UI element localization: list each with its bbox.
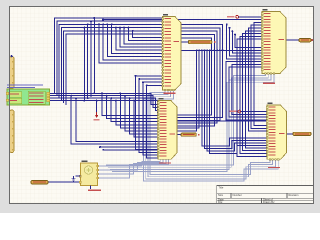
wire drop 3 to C bottom bbox=[143, 82, 158, 155]
wire gray C-X1 1 bbox=[98, 159, 161, 166]
value label below X1 (red) bbox=[88, 190, 101, 191]
wire gray B bottom loop 3 bbox=[110, 74, 271, 170]
module U1 (green interface block) bbox=[7, 89, 50, 105]
oscillator X1 bbox=[81, 163, 98, 186]
wire VCC to P4 bbox=[241, 111, 267, 113]
harness port bottom-left bbox=[48, 181, 81, 183]
designator X1 (above) bbox=[82, 161, 88, 162]
wire drop to C right 5 bbox=[177, 50, 197, 131]
wire riser 4 bbox=[83, 28, 85, 101]
wire fan to A pin 1 bbox=[99, 24, 163, 63]
wire P2 low pin to P4 2 bbox=[232, 64, 267, 114]
wire P2 pin to P4 pin 7 bbox=[237, 39, 267, 156]
wire A low row 1 bbox=[136, 75, 163, 77]
wire A right to C right 4 bbox=[177, 35, 214, 126]
wire riser 1 bbox=[93, 18, 95, 93]
wire drop to P2 pin 1 bbox=[227, 25, 262, 59]
title block bbox=[217, 186, 314, 204]
wire bus TL corner 6 bbox=[66, 34, 163, 105]
wire A right to C right 1 bbox=[177, 25, 223, 118]
power port VCC top (red) bbox=[236, 15, 239, 18]
wire fan to A pin 8 bbox=[128, 28, 162, 41]
svg-text:Title: Title bbox=[219, 186, 224, 190]
wire A low row 2 bbox=[139, 78, 162, 80]
wire gray C-X1 4 bbox=[98, 159, 169, 178]
wire gray B bottom loop 1 bbox=[106, 74, 265, 166]
wire staircase drop 2 to C bbox=[107, 96, 158, 119]
wire A right to C right 5 bbox=[177, 38, 212, 115]
wire to port D bbox=[287, 133, 294, 135]
harness port B bbox=[299, 39, 311, 42]
wire P2 pin to P4 pin 5 bbox=[243, 34, 267, 151]
wire staircase drop 7 to C bbox=[130, 98, 158, 134]
svg-text:Size: Size bbox=[218, 193, 224, 197]
wire Z-knot to P4 3 bbox=[207, 50, 267, 151]
wire to GND bbox=[96, 101, 98, 112]
ground at X1 bbox=[72, 176, 76, 181]
wire gray A-D loop 4 bbox=[144, 90, 279, 181]
wire P2 pin to P4 pin 1 bbox=[254, 22, 267, 125]
node strip top bbox=[11, 55, 13, 57]
wire fan to A pin 5 bbox=[116, 28, 163, 51]
wire A right to C right 2 bbox=[177, 28, 220, 121]
wire A right long to P2 bbox=[181, 49, 262, 51]
wire gray A-D loop 1 bbox=[150, 90, 270, 175]
wire P2 low pin to P4 3 bbox=[229, 67, 267, 117]
wire to port B bbox=[286, 39, 299, 41]
wire gray A-D loop 2 bbox=[148, 90, 273, 177]
wire jog into P2 bbox=[255, 19, 263, 21]
power port VCC bottom (red) bbox=[238, 110, 241, 113]
svg-text:Number: Number bbox=[233, 193, 242, 197]
harness port D bbox=[293, 132, 311, 135]
wire staircase drop 5 to C bbox=[120, 93, 158, 128]
wire bus TL corner 1 bbox=[55, 18, 163, 93]
wire staircase drop 3 to C bbox=[111, 98, 158, 122]
power port GND (red) bbox=[96, 112, 98, 116]
wire A low row 4 bbox=[147, 84, 163, 86]
wire staircase drop 1 to C bbox=[102, 93, 158, 115]
wire Z-knot to P4 1 bbox=[202, 50, 267, 146]
sheet border frame bbox=[10, 7, 314, 204]
wire drop to P2 pin 4 bbox=[235, 35, 262, 48]
connector P3 bbox=[158, 101, 177, 160]
wire Z-knot to P4 4 bbox=[210, 50, 267, 153]
harness port A bbox=[188, 40, 212, 43]
wire drop 4 to C bottom bbox=[147, 85, 158, 157]
svg-text:Revision: Revision bbox=[289, 193, 300, 197]
wire green-box row 1 to C top bbox=[50, 93, 159, 104]
wire staircase drop 8 to C bbox=[134, 101, 158, 138]
wire long to P2 pin2 bbox=[103, 19, 255, 21]
wire row to C 4 bbox=[103, 149, 158, 151]
wire fan to A pin 9 bbox=[133, 31, 163, 38]
wire fan to A pin 6 bbox=[120, 28, 163, 47]
wire drop 2 to C bottom bbox=[139, 79, 158, 152]
wire A right to C right 3 bbox=[177, 31, 217, 123]
wire X1 left pin stub bbox=[76, 175, 81, 177]
wire bus TL corner 2 bbox=[57, 21, 163, 96]
wire gray A-D loop 3 bbox=[146, 90, 276, 179]
wire green-box row 2 to C top bbox=[50, 96, 159, 108]
wire to port C bbox=[177, 134, 181, 136]
wire U-left 1 to C bbox=[71, 96, 158, 145]
wire A low row 3 bbox=[143, 81, 163, 83]
connector P2 bbox=[262, 12, 286, 74]
wire fan to A pin 3 bbox=[107, 24, 162, 56]
wire P2 pin to P4 pin 4 bbox=[246, 31, 268, 148]
wire fan to A pin 7 bbox=[124, 28, 162, 44]
wire X1 bottom stub bbox=[90, 186, 92, 189]
harness port C bbox=[181, 133, 196, 136]
harness port E bbox=[31, 180, 48, 184]
wire fan to A pin 4 bbox=[112, 24, 163, 53]
wire bus TL corner 5 bbox=[64, 31, 163, 103]
wire gray C-X1 3 bbox=[98, 159, 166, 174]
wire P2 pin to P4 pin 6 bbox=[240, 36, 267, 153]
wire P2 low pin to P4 1 bbox=[226, 62, 267, 120]
wire VCC to P2 bbox=[239, 16, 262, 18]
wire green-box row 3 to C top bbox=[50, 98, 159, 110]
wire staircase drop 4 to C bbox=[116, 101, 158, 125]
connector P4 bbox=[267, 105, 287, 159]
wire drop 1 to C bottom bbox=[136, 76, 159, 150]
wire gray C-X1 2 bbox=[98, 159, 164, 170]
wire to port A bbox=[181, 41, 188, 43]
wire gray B bottom loop 2 bbox=[108, 74, 268, 168]
wire gray B bottom loop 4 bbox=[112, 74, 274, 172]
wire P2 pin to P4 pin 2 bbox=[251, 25, 267, 128]
wire drop to P2 pin 3 bbox=[232, 31, 262, 53]
wire drop to C right 6 bbox=[177, 50, 199, 128]
wire Z-knot to P4 2 bbox=[205, 50, 268, 148]
wire drop to P2 pin 2 bbox=[230, 28, 263, 56]
wire bus TL corner 4 bbox=[61, 28, 162, 101]
connector P1 bbox=[163, 17, 182, 91]
wire riser 2 bbox=[90, 21, 92, 96]
wire row to C 3 bbox=[100, 146, 158, 148]
wire green-box row 4 to C top bbox=[50, 101, 159, 114]
label above U1 (blue text) bbox=[7, 84, 43, 85]
wire staircase drop 6 to C bbox=[125, 96, 158, 131]
wire fan to A pin 2 bbox=[103, 24, 162, 59]
wire U-left 2 to C bbox=[76, 98, 158, 141]
wire bus TL corner 3 bbox=[59, 24, 162, 98]
wire riser 3 bbox=[87, 24, 89, 98]
wire P2 pin to P4 pin 3 bbox=[248, 28, 267, 131]
wire C right to P4 bbox=[177, 120, 267, 122]
connector J1 (left edge strip) bbox=[9, 57, 14, 89]
